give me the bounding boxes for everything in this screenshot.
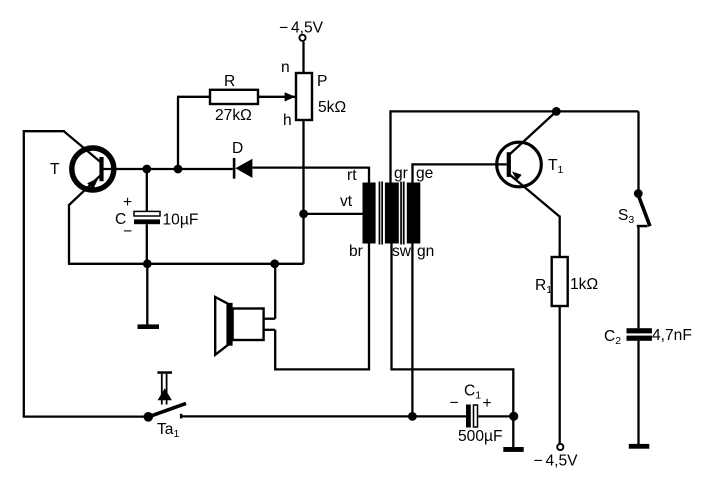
terminal -4,5V top: [299, 35, 305, 41]
diode D: [233, 158, 369, 179]
svg-text:ge: ge: [416, 165, 433, 182]
wire T base: [104, 168, 233, 170]
potentiometer P 5k: [296, 42, 312, 264]
svg-text:10µF: 10µF: [163, 212, 199, 229]
wire bus: [68, 263, 304, 265]
svg-text:5kΩ: 5kΩ: [318, 99, 346, 116]
wire gr tap up and top line: [391, 111, 639, 184]
transformer: [363, 182, 421, 245]
wire gn tap down: [411, 243, 413, 416]
wire S3 to C2: [637, 226, 639, 328]
resistor R 27k: [177, 90, 295, 169]
svg-text:−: −: [534, 453, 543, 470]
svg-text:−: −: [450, 395, 459, 412]
resistor R1 1k: [552, 257, 568, 306]
node C1-ground junction: [509, 412, 518, 421]
svg-text:+: +: [483, 395, 492, 412]
ground C1: [503, 416, 523, 452]
svg-text:27kΩ: 27kΩ: [215, 107, 252, 124]
svg-text:1kΩ: 1kΩ: [570, 276, 598, 293]
node gn-bus junction: [408, 412, 417, 421]
svg-text:gn: gn: [417, 243, 434, 260]
node vt junction: [299, 210, 308, 219]
speaker: [215, 297, 275, 355]
svg-text:rt: rt: [347, 167, 357, 184]
svg-text:500µF: 500µF: [458, 428, 503, 445]
wire ge tap to T1 base: [413, 164, 507, 184]
svg-text:P: P: [317, 73, 327, 90]
svg-text:4,5V: 4,5V: [546, 453, 579, 470]
node top line junction: [552, 107, 561, 116]
wire rt tap: [368, 167, 370, 184]
wire T1 emitter to R1: [559, 216, 561, 258]
wire br tap down: [275, 243, 369, 369]
wire sw tap down right: [392, 243, 514, 416]
svg-text:gr: gr: [394, 165, 408, 182]
wire bottom-left to Ta1: [23, 415, 149, 417]
wire right rail top: [637, 111, 639, 192]
ground below C: [138, 264, 160, 329]
node bus-C junction: [143, 259, 152, 268]
svg-text:sw: sw: [392, 243, 412, 260]
svg-text:R: R: [224, 73, 235, 90]
svg-text:−: −: [279, 20, 288, 37]
capacitor C2 4,7nF: [627, 328, 652, 341]
pushbutton Ta1: [144, 371, 187, 421]
node base-R junction: [174, 165, 183, 174]
wire Ta1 to C1: [180, 415, 466, 417]
wire R1 down: [559, 306, 561, 444]
capacitor C 10uF: [134, 169, 160, 264]
svg-text:4,5V: 4,5V: [291, 20, 324, 37]
svg-text:−: −: [123, 223, 132, 240]
transistor T1: [497, 111, 560, 216]
ground C2: [629, 444, 650, 449]
svg-text:D: D: [232, 140, 243, 157]
svg-text:h: h: [283, 112, 292, 129]
wire vt: [304, 213, 363, 215]
transistor T: [64, 131, 114, 205]
switch S3: [634, 189, 650, 227]
wire speaker top to bus: [274, 264, 276, 319]
wire T emitter down: [68, 204, 70, 264]
svg-text:n: n: [281, 59, 290, 76]
wire left rail: [24, 131, 65, 416]
svg-text:vt: vt: [340, 193, 353, 210]
svg-text:br: br: [349, 243, 363, 260]
node bus-speaker junction: [270, 259, 279, 268]
svg-text:+: +: [123, 194, 132, 211]
terminal -4,5V bottom: [557, 444, 563, 450]
svg-text:T: T: [50, 161, 60, 178]
svg-text:4,7nF: 4,7nF: [652, 327, 692, 344]
wire C2 down: [637, 341, 639, 444]
capacitor C1 500uF: [466, 405, 513, 428]
node base-C junction: [142, 165, 151, 174]
